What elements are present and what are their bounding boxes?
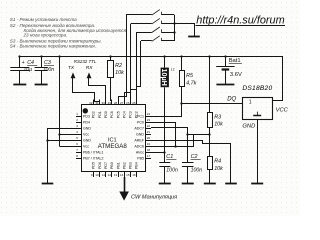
- svg-text:4,7k: 4,7k: [186, 80, 196, 86]
- svg-text:GND: GND: [136, 132, 144, 136]
- svg-text:GND: GND: [83, 138, 91, 142]
- svg-text:S1 - Режим установки текста: S1 - Режим установки текста: [10, 17, 77, 22]
- svg-text:http://r4n.su/forum: http://r4n.su/forum: [196, 15, 284, 27]
- svg-text:+: +: [22, 60, 25, 66]
- svg-text:10k: 10k: [214, 166, 223, 172]
- svg-text:GND: GND: [242, 123, 255, 129]
- svg-text:22: 22: [147, 124, 151, 128]
- svg-text:10k: 10k: [214, 122, 223, 128]
- svg-text:R3: R3: [214, 115, 221, 121]
- svg-text:PC1: PC1: [137, 114, 144, 118]
- svg-text:R2: R2: [115, 63, 122, 69]
- svg-text:23: 23: [147, 118, 151, 122]
- svg-text:Vcc: Vcc: [83, 144, 89, 148]
- svg-text:S4 - Выключение передачи напря: S4 - Выключение передачи напряжения.: [10, 43, 96, 48]
- svg-text:R4: R4: [214, 159, 221, 165]
- svg-text:19: 19: [147, 142, 151, 146]
- svg-text:PC4: PC4: [122, 111, 126, 118]
- svg-text:29: 29: [108, 101, 112, 105]
- svg-text:10k: 10k: [115, 70, 124, 76]
- svg-text:100n: 100n: [166, 168, 178, 174]
- svg-text:PC5: PC5: [116, 111, 120, 118]
- svg-text:30: 30: [102, 101, 106, 105]
- svg-text:3.6V: 3.6V: [230, 72, 242, 78]
- svg-text:23 нога процессора.: 23 нога процессора.: [23, 32, 68, 37]
- svg-text:RX: RX: [86, 65, 93, 71]
- svg-text:C2: C2: [191, 154, 198, 160]
- svg-text:PD5: PD5: [92, 162, 96, 169]
- svg-text:27: 27: [120, 101, 124, 105]
- svg-text:PB1: PB1: [116, 162, 120, 169]
- svg-text:PC0: PC0: [137, 120, 144, 124]
- svg-text:AREF: AREF: [134, 138, 144, 142]
- svg-text:DS18B20: DS18B20: [242, 85, 272, 92]
- svg-text:10µ: 10µ: [23, 67, 32, 73]
- svg-text:15: 15: [126, 173, 130, 177]
- svg-text:100n: 100n: [191, 168, 203, 174]
- svg-text:28: 28: [114, 101, 118, 105]
- svg-text:16: 16: [132, 173, 136, 177]
- svg-text:PC6: PC6: [110, 111, 114, 118]
- svg-text:Vcc: Vcc: [83, 132, 89, 136]
- svg-text:GND: GND: [83, 126, 91, 130]
- svg-text:VCC: VCC: [276, 108, 289, 114]
- svg-text:14: 14: [120, 173, 124, 177]
- svg-text:RS232 TTL: RS232 TTL: [74, 59, 97, 64]
- svg-text:PD0: PD0: [104, 111, 108, 118]
- svg-text:R5: R5: [186, 73, 194, 79]
- svg-text:12: 12: [108, 173, 112, 177]
- svg-text:PC3: PC3: [129, 111, 133, 118]
- svg-text:11: 11: [102, 173, 105, 177]
- svg-text:PD4: PD4: [83, 120, 90, 124]
- svg-text:100n: 100n: [43, 67, 55, 73]
- svg-text:DQ: DQ: [227, 96, 236, 102]
- svg-text:10: 10: [95, 173, 99, 177]
- svg-text:13: 13: [114, 173, 118, 177]
- svg-text:ADC6: ADC6: [134, 144, 144, 148]
- svg-text:Bat1: Bat1: [229, 58, 241, 64]
- svg-text:PB6 / XTAL1: PB6 / XTAL1: [83, 150, 104, 154]
- svg-text:32: 32: [89, 101, 93, 105]
- svg-text:PB7 / XTAL2: PB7 / XTAL2: [83, 156, 104, 160]
- svg-text:PD7: PD7: [104, 162, 108, 169]
- svg-text:17: 17: [147, 154, 151, 158]
- svg-text:PB2: PB2: [122, 162, 126, 169]
- svg-text:10µH: 10µH: [160, 69, 169, 86]
- svg-text:ADC7: ADC7: [134, 126, 144, 130]
- svg-text:CW Манипуляция: CW Манипуляция: [131, 194, 177, 200]
- svg-text:PB3: PB3: [129, 162, 133, 169]
- svg-text:L1: L1: [171, 68, 175, 72]
- svg-text:ATMEGA8: ATMEGA8: [98, 143, 128, 150]
- svg-text:PD3: PD3: [83, 114, 90, 118]
- svg-text:TX: TX: [68, 65, 75, 71]
- svg-text:C4: C4: [27, 60, 34, 66]
- svg-text:1: 1: [249, 100, 252, 106]
- svg-text:C3: C3: [44, 60, 51, 66]
- svg-text:PD2: PD2: [92, 111, 96, 118]
- svg-text:26: 26: [126, 101, 130, 105]
- svg-text:PB0: PB0: [110, 162, 114, 169]
- svg-text:25: 25: [132, 101, 136, 105]
- svg-text:20: 20: [147, 136, 151, 140]
- svg-text:PB5: PB5: [137, 156, 144, 160]
- svg-text:18: 18: [147, 148, 151, 152]
- svg-text:24: 24: [147, 112, 151, 116]
- svg-text:PD1: PD1: [98, 111, 102, 118]
- svg-text:AVcc: AVcc: [136, 150, 144, 154]
- svg-text:PB4: PB4: [135, 162, 139, 169]
- svg-text:21: 21: [147, 130, 151, 134]
- svg-text:PD6: PD6: [98, 162, 102, 169]
- svg-text:C1: C1: [166, 154, 173, 160]
